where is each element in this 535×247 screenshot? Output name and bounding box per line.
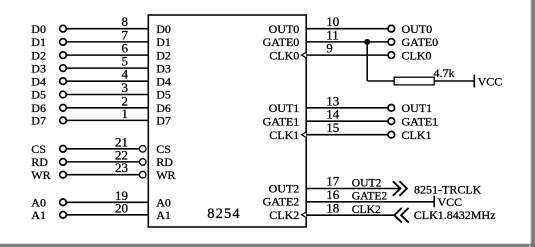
svg-text:CS: CS	[31, 142, 46, 156]
svg-text:WR: WR	[156, 168, 175, 182]
svg-text:8254: 8254	[207, 206, 240, 222]
svg-text:GATE0: GATE0	[402, 35, 439, 49]
svg-text:D3: D3	[31, 61, 46, 75]
svg-text:D2: D2	[31, 48, 46, 62]
svg-text:D0: D0	[31, 22, 46, 36]
svg-text:CLK2: CLK2	[269, 208, 299, 222]
svg-text:9: 9	[326, 41, 333, 56]
svg-text:D4: D4	[31, 74, 46, 88]
svg-text:GATE1: GATE1	[263, 114, 300, 128]
svg-text:D5: D5	[156, 88, 171, 102]
svg-text:D1: D1	[156, 35, 171, 49]
svg-text:4.7k: 4.7k	[434, 66, 455, 80]
svg-text:15: 15	[326, 120, 339, 135]
svg-text:CLK1: CLK1	[402, 128, 432, 142]
svg-text:CLK0: CLK0	[402, 48, 432, 62]
svg-text:D2: D2	[156, 48, 171, 62]
svg-text:D0: D0	[156, 22, 171, 36]
svg-text:23: 23	[115, 160, 128, 175]
svg-text:VCC: VCC	[478, 74, 503, 88]
svg-text:GATE1: GATE1	[402, 114, 439, 128]
svg-text:WR: WR	[31, 168, 50, 182]
svg-text:D1: D1	[31, 35, 46, 49]
svg-text:VCC: VCC	[438, 195, 463, 209]
svg-text:CLK1: CLK1	[269, 128, 299, 142]
svg-text:OUT2: OUT2	[352, 176, 382, 189]
svg-text:OUT1: OUT1	[402, 101, 433, 115]
svg-text:1: 1	[122, 106, 129, 121]
svg-text:OUT1: OUT1	[269, 101, 300, 115]
svg-text:OUT2: OUT2	[269, 181, 300, 195]
svg-text:OUT0: OUT0	[269, 22, 300, 36]
svg-text:CLK1.8432MHz: CLK1.8432MHz	[414, 208, 496, 222]
svg-text:D5: D5	[31, 88, 46, 102]
svg-text:GATE0: GATE0	[263, 35, 300, 49]
svg-text:GATE2: GATE2	[263, 195, 300, 209]
svg-text:D7: D7	[156, 114, 171, 128]
svg-text:GATE2: GATE2	[352, 190, 388, 203]
svg-text:CLK2: CLK2	[352, 203, 381, 216]
svg-text:A1: A1	[31, 208, 46, 222]
svg-text:A1: A1	[156, 208, 171, 222]
svg-text:D7: D7	[31, 114, 46, 128]
svg-text:CS: CS	[156, 142, 171, 156]
svg-text:CLK0: CLK0	[269, 48, 299, 62]
svg-text:20: 20	[115, 200, 128, 215]
svg-text:OUT0: OUT0	[402, 22, 433, 36]
svg-text:D4: D4	[156, 74, 171, 88]
svg-text:D3: D3	[156, 61, 171, 75]
